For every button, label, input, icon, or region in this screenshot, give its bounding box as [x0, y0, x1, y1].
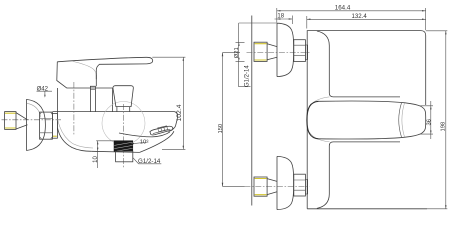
svg-text:G1/2-14: G1/2-14: [138, 158, 161, 165]
svg-text:36: 36: [427, 119, 433, 125]
svg-text:10°: 10°: [140, 139, 149, 145]
svg-text:10: 10: [93, 155, 99, 162]
svg-text:150: 150: [218, 124, 224, 134]
svg-text:Ø21: Ø21: [234, 47, 240, 58]
svg-text:102.4: 102.4: [176, 104, 183, 121]
svg-text:198: 198: [441, 122, 447, 132]
svg-text:G1/2-14: G1/2-14: [245, 65, 251, 87]
